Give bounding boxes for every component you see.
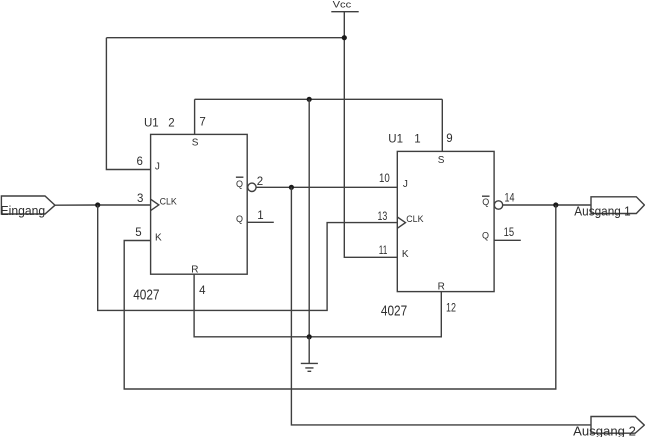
svg-text:K: K [402, 249, 409, 260]
svg-text:2: 2 [168, 117, 174, 129]
wire net from inverted output Q2 of U1 gate 2 to J pin 10 of U1 gate 1 [256, 186, 397, 188]
output bubble pin 14 of U1 gate 1 [494, 201, 502, 209]
wire net VCC: horizontal top wire from x=106 to Vcc junction [106, 37, 344, 39]
wire net AUSGANG1: from inverted output pin 14 to connector Ausgang 1 [503, 204, 591, 206]
svg-text:Q: Q [236, 214, 243, 224]
svg-text:3: 3 [137, 193, 143, 205]
junction on Q2 wire [289, 185, 294, 190]
junction at ground node [307, 334, 312, 339]
svg-text:CLK: CLK [160, 196, 177, 206]
svg-text:Eingang: Eingang [1, 203, 46, 218]
svg-text:2: 2 [257, 176, 263, 188]
svg-text:Ausgang 1: Ausgang 1 [574, 203, 630, 218]
svg-text:U1: U1 [388, 134, 403, 146]
svg-text:12: 12 [446, 303, 456, 315]
clock triangle of U1 gate 1 [397, 217, 405, 228]
svg-text:4027: 4027 [133, 286, 159, 303]
ground symbol [301, 337, 318, 372]
svg-text:Vcc: Vcc [333, 0, 352, 9]
svg-text:Q: Q [482, 230, 489, 240]
svg-text:11: 11 [379, 245, 388, 257]
svg-text:14: 14 [505, 193, 515, 205]
svg-text:Q: Q [482, 197, 489, 207]
wire net VCC: vertical left drop to pin J of U1 gate 2 [106, 38, 150, 170]
svg-text:1: 1 [257, 210, 263, 222]
connector Ausgang 2 [573, 417, 644, 437]
svg-text:7: 7 [199, 117, 205, 129]
svg-text:J: J [155, 161, 160, 172]
svg-text:5: 5 [135, 227, 141, 239]
svg-text:CLK: CLK [406, 214, 423, 224]
junction at Vcc node [342, 35, 347, 40]
wire net GND: horizontal wire joining S pins [195, 98, 443, 100]
wire net GND: R pin 4 of U1 gate 2 down then right [194, 274, 309, 337]
wire net EINGANG: down, right and up to CLK pin 13 of U1 gate 1 [98, 205, 398, 310]
clock triangle of U1 gate 2 [151, 199, 159, 210]
wire net AUSGANG1: feedback down then left to K pin 5 of U1 gate 2 [124, 205, 556, 389]
svg-text:6: 6 [137, 156, 143, 168]
connector Eingang [1, 196, 56, 218]
pin 1 stub of U1 gate 2 [247, 221, 274, 223]
flip-flop U1 gate 2 (4027) body [133, 117, 247, 303]
svg-text:S: S [192, 138, 199, 149]
wire net GND: vertical from S wire down to R wire [308, 99, 310, 336]
power Vcc symbol [331, 0, 358, 38]
wire net VCC: vertical from Vcc junction down to K11 and right to pin K of U1 gate 1 [344, 38, 397, 258]
svg-text:S: S [438, 155, 445, 166]
junction on S wire [307, 97, 312, 102]
pin label inverted Q of U1 gate 1 [482, 196, 490, 207]
svg-text:9: 9 [446, 133, 452, 145]
wire net GND: S pin 9 vertical of U1 gate 1 [441, 99, 443, 151]
svg-text:4: 4 [199, 285, 206, 297]
svg-text:J: J [403, 179, 408, 190]
flip-flop U1 gate 1 (4027) body [381, 134, 494, 320]
svg-text:Ausgang 2: Ausgang 2 [573, 423, 636, 437]
junction on Ausgang 1 wire [553, 202, 558, 207]
svg-text:Q: Q [236, 179, 243, 189]
wire net GND: R pin 12 of U1 gate 1 down then left [309, 292, 441, 337]
svg-text:R: R [438, 281, 445, 292]
pin label inverted Q of U1 gate 2 [236, 177, 244, 189]
connector Ausgang 1 [574, 197, 644, 219]
output bubble pin 2 of U1 gate 2 [248, 183, 256, 191]
svg-text:K: K [155, 232, 162, 243]
wire net EINGANG: from connector to CLK pin 3 of U1 gate 2 [55, 204, 151, 206]
junction on Eingang wire [95, 202, 100, 207]
svg-text:15: 15 [504, 227, 514, 239]
svg-text:1: 1 [414, 134, 420, 146]
svg-text:4027: 4027 [381, 303, 407, 320]
svg-text:10: 10 [379, 173, 390, 185]
svg-text:13: 13 [378, 211, 388, 223]
pin 15 stub of U1 gate 1 [494, 239, 521, 241]
svg-text:U1: U1 [144, 117, 159, 129]
wire net GND: S pin 7 vertical of U1 gate 2 [194, 99, 196, 134]
wire net to connector Ausgang 2: down then right [291, 187, 591, 425]
svg-text:R: R [191, 264, 198, 275]
